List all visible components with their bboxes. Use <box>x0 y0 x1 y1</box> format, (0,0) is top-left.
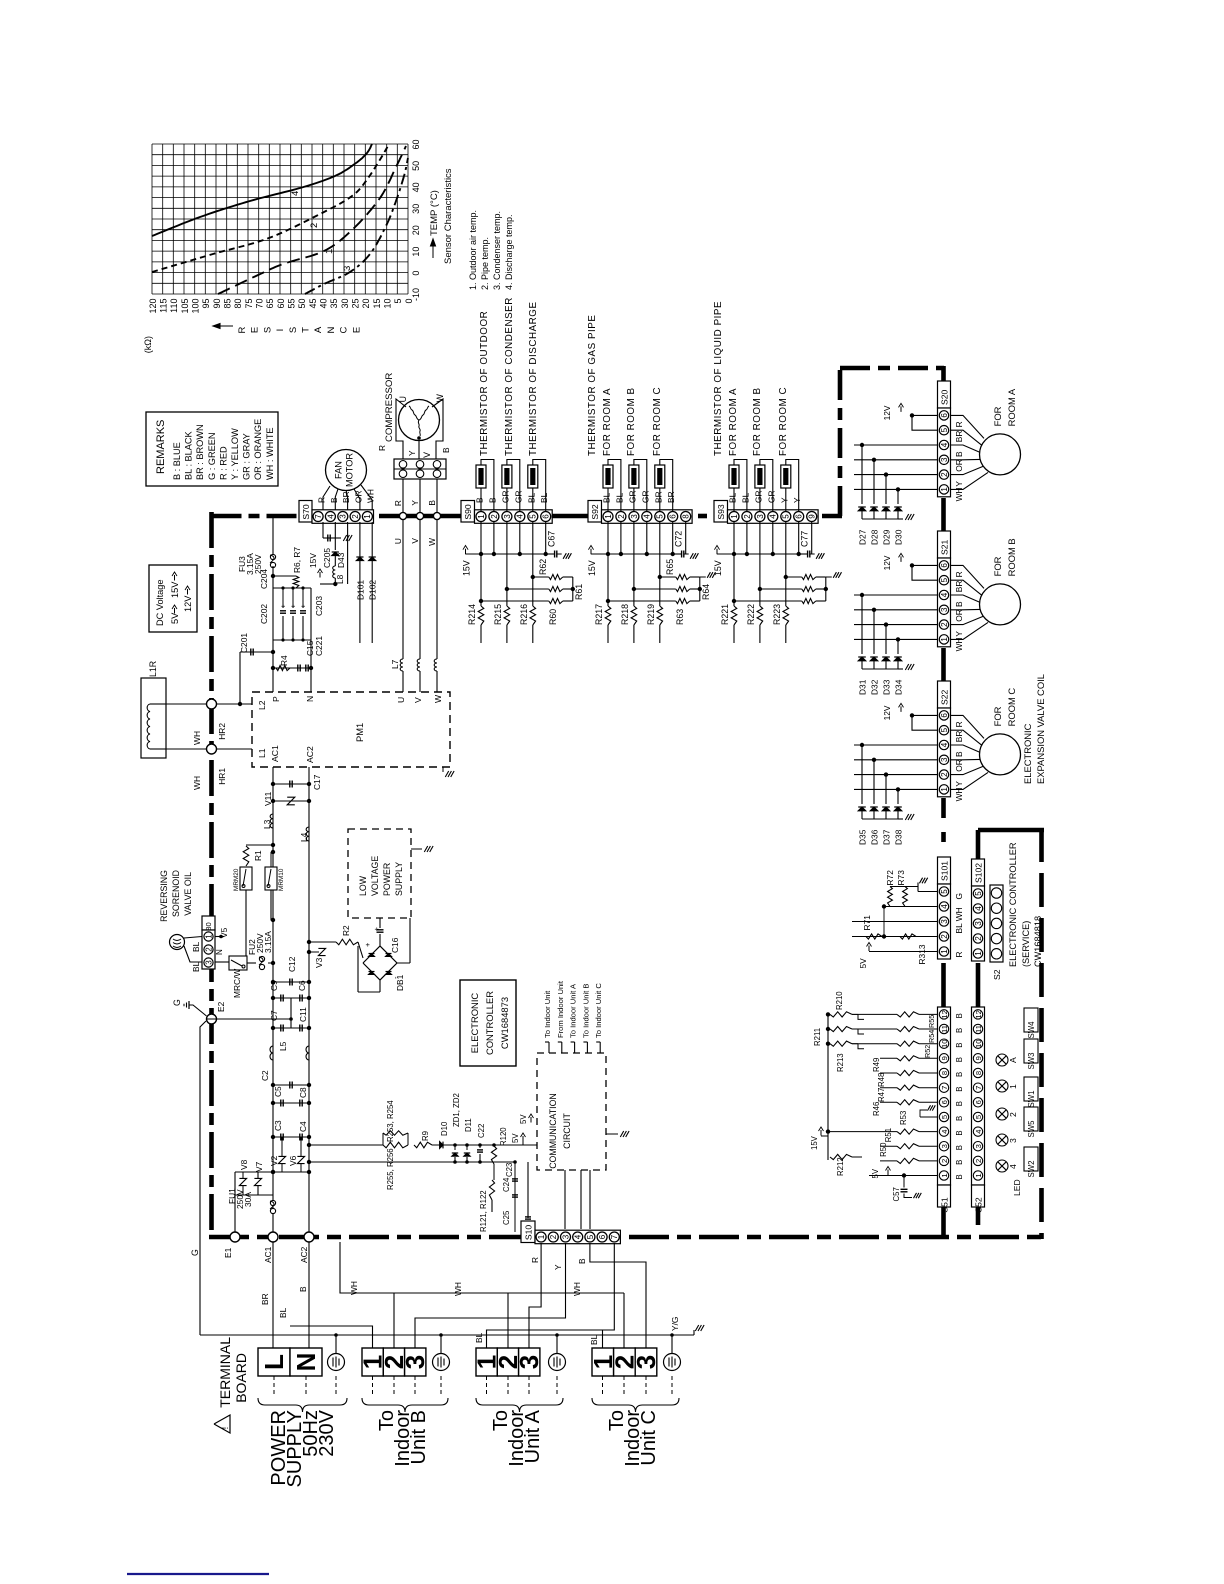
svg-text:B: B <box>427 500 437 506</box>
svg-text:D29: D29 <box>882 529 892 545</box>
svg-text:R47: R47 <box>877 1088 886 1102</box>
diode block D35-D38 <box>854 744 938 746</box>
svg-text:WH: WH <box>453 1282 463 1296</box>
svg-text:2: 2 <box>940 772 949 777</box>
svg-text:5V: 5V <box>519 1114 528 1124</box>
svg-text:B: B <box>955 1028 964 1033</box>
C12 capacitor <box>273 981 309 983</box>
svg-text:EXPANSION VALVE COIL: EXPANSION VALVE COIL <box>1035 674 1046 784</box>
svg-text:R: R <box>954 721 964 727</box>
svg-text:CIRCUIT: CIRCUIT <box>562 1113 572 1149</box>
svg-text:15V: 15V <box>810 1135 819 1150</box>
svg-text:Sensor Characteristics: Sensor Characteristics <box>443 168 454 264</box>
R51 R50 rows <box>880 1145 897 1147</box>
svg-text:6: 6 <box>598 1234 607 1239</box>
svg-text:2: 2 <box>351 514 360 519</box>
V3 varistor <box>309 951 319 953</box>
svg-text:5: 5 <box>974 891 983 896</box>
C2 capacitor <box>273 1084 309 1086</box>
heavy bus line top <box>212 514 301 519</box>
svg-text:8: 8 <box>974 1071 983 1075</box>
svg-text:BR : BROWN: BR : BROWN <box>195 424 205 480</box>
svg-text:ROOM C: ROOM C <box>1006 688 1017 727</box>
svg-text:15: 15 <box>372 299 382 309</box>
svg-text:15V: 15V <box>713 560 723 576</box>
svg-text:3: 3 <box>339 514 348 519</box>
svg-text:(SERVICE): (SERVICE) <box>1021 921 1031 967</box>
capacitor and ground at rail end <box>546 553 555 555</box>
svg-text:R1: R1 <box>253 850 263 861</box>
RESISTANCE word and arrow <box>213 325 233 327</box>
svg-text:W: W <box>427 538 437 546</box>
svg-text:MOTOR: MOTOR <box>345 453 355 487</box>
svg-text:VOLTAGE: VOLTAGE <box>370 856 380 896</box>
svg-text:VALVE OIL: VALVE OIL <box>183 872 193 916</box>
TEMP axis title with arrow <box>432 241 434 258</box>
svg-text:N: N <box>215 949 224 955</box>
terminal cells unit B <box>362 1348 383 1376</box>
svg-text:R218: R218 <box>620 604 630 625</box>
S51 left resistor array <box>827 1014 829 1160</box>
D11 diode <box>466 1145 468 1150</box>
earth rail Y/G <box>200 1334 694 1336</box>
svg-text:C5: C5 <box>273 1086 283 1097</box>
svg-text:FOR ROOM A: FOR ROOM A <box>728 388 739 456</box>
15V arrow at rail <box>820 1130 822 1136</box>
svg-text:3: 3 <box>630 514 639 519</box>
svg-text:REVERSING: REVERSING <box>159 870 169 922</box>
svg-text:!: ! <box>220 1427 231 1430</box>
remarks legend box <box>146 412 278 486</box>
terminal cells L N <box>258 1348 290 1376</box>
centre tap of C block <box>290 998 292 1028</box>
wires terminal block to bus <box>402 479 404 512</box>
fuse FU3 <box>272 516 274 556</box>
svg-text:B: B <box>955 1116 964 1121</box>
svg-text:To Indoor Unit C: To Indoor Unit C <box>594 983 603 1038</box>
heavy border top toward S20 <box>840 366 944 371</box>
compressor motor <box>399 400 440 441</box>
svg-text:R216: R216 <box>519 604 529 625</box>
svg-text:L3: L3 <box>262 819 272 829</box>
svg-text:BR: BR <box>653 491 663 503</box>
BL wire N area to unit B1 <box>290 1326 373 1348</box>
connector S70 <box>299 501 312 523</box>
svg-text:COMMUNICATION: COMMUNICATION <box>548 1093 558 1169</box>
svg-text:11: 11 <box>974 1025 983 1033</box>
svg-text:ELECTRONIC: ELECTRONIC <box>1022 723 1033 784</box>
connector S51 pin block <box>938 1007 951 1185</box>
svg-text:B: B <box>298 1286 308 1292</box>
C16 capacitor <box>379 934 381 946</box>
svg-text:C57: C57 <box>892 1187 901 1201</box>
svg-text:B: B <box>577 1258 587 1264</box>
svg-text:L: L <box>259 1354 289 1370</box>
svg-text:5V: 5V <box>871 1168 880 1178</box>
svg-text:S: S <box>288 327 299 333</box>
svg-text:R: R <box>954 421 964 427</box>
svg-text:1: 1 <box>324 249 335 254</box>
svg-text:WH: WH <box>954 637 964 651</box>
svg-text:R6, R7: R6, R7 <box>292 547 302 573</box>
terminal E2 on border <box>207 1014 217 1024</box>
svg-text:90: 90 <box>212 299 222 309</box>
svg-text:R217: R217 <box>594 604 604 625</box>
svg-text:E2: E2 <box>216 1001 226 1012</box>
svg-text:R222: R222 <box>746 604 756 625</box>
diode D102 <box>371 522 373 643</box>
HR2 terminal <box>166 703 252 705</box>
svg-text:R211: R211 <box>813 1028 822 1046</box>
svg-text:20: 20 <box>411 225 421 235</box>
R6 R7 resistors <box>273 575 296 577</box>
thermistor loop S92 pins 3-4 <box>634 460 647 512</box>
R212 row <box>830 1154 852 1159</box>
svg-text:WH: WH <box>349 1281 359 1295</box>
svg-text:D38: D38 <box>894 829 904 845</box>
svg-text:R51: R51 <box>884 1128 893 1142</box>
svg-text:3: 3 <box>940 457 949 462</box>
R4 C15 C221 row <box>273 667 311 669</box>
svg-text:4: 4 <box>326 514 335 519</box>
svg-text:4: 4 <box>974 906 983 911</box>
connector S101 <box>938 857 951 884</box>
svg-text:2: 2 <box>1008 1112 1018 1117</box>
svg-text:B: B <box>955 1057 964 1062</box>
svg-text:55: 55 <box>287 299 297 309</box>
svg-text:15V: 15V <box>462 560 472 576</box>
svg-text:BR: BR <box>341 491 351 503</box>
svg-text:R73: R73 <box>896 870 906 886</box>
L3 inductor <box>270 814 273 828</box>
svg-text:1: 1 <box>204 934 213 939</box>
svg-text:9: 9 <box>974 1056 983 1060</box>
svg-text:B: B <box>441 447 451 453</box>
LED indicators <box>996 1054 1008 1066</box>
svg-text:B: B <box>487 497 497 503</box>
svg-text:1: 1 <box>940 637 949 642</box>
svg-text:D37: D37 <box>882 829 892 845</box>
svg-text:C16: C16 <box>390 937 400 953</box>
V11 varistor <box>273 800 309 802</box>
svg-text:6: 6 <box>940 1100 949 1104</box>
svg-text:Y: Y <box>954 481 964 487</box>
svg-text:5: 5 <box>656 514 665 519</box>
svg-text:B: B <box>955 1086 964 1091</box>
svg-text:C9: C9 <box>269 980 279 991</box>
svg-text:HR2: HR2 <box>217 723 227 740</box>
svg-text:Y: Y <box>954 781 964 787</box>
svg-text:C202: C202 <box>259 604 269 624</box>
svg-text:L5: L5 <box>278 1041 288 1051</box>
svg-text:3: 3 <box>940 919 949 924</box>
svg-text:G : GREEN: G : GREEN <box>207 433 217 480</box>
svg-text:4: 4 <box>290 191 301 196</box>
svg-text:THERMISTOR OF CONDENSER: THERMISTOR OF CONDENSER <box>504 297 515 456</box>
connector S21 <box>938 531 951 558</box>
svg-text:SORENOID: SORENOID <box>171 870 181 917</box>
svg-text:U: U <box>393 538 403 544</box>
svg-text:6: 6 <box>940 563 949 568</box>
svg-text:D35: D35 <box>858 829 868 845</box>
capacitor and ground at rail end <box>799 553 808 555</box>
12V feed S22 <box>912 714 938 716</box>
svg-text:R64: R64 <box>701 584 711 600</box>
chassis ground G at E2 <box>189 1005 207 1016</box>
svg-text:BL: BL <box>474 1332 484 1343</box>
svg-text:5: 5 <box>940 577 949 582</box>
DB1 output wires <box>358 942 363 958</box>
svg-text:3: 3 <box>561 1234 570 1239</box>
svg-text:R120: R120 <box>499 1127 508 1146</box>
svg-text:C: C <box>339 326 350 333</box>
pulldown resistors <box>480 554 482 606</box>
braces under terminal groups <box>258 1398 347 1412</box>
svg-text:30: 30 <box>411 204 421 214</box>
svg-text:GR: GR <box>627 490 637 503</box>
svg-text:R72: R72 <box>885 870 895 886</box>
svg-text:To Indoor Unit: To Indoor Unit <box>543 990 552 1038</box>
HR1 terminal <box>166 748 252 750</box>
svg-text:E: E <box>351 327 362 333</box>
svg-text:BL: BL <box>191 961 201 972</box>
svg-text:C204: C204 <box>259 569 269 589</box>
svg-text:L1: L1 <box>257 748 267 758</box>
svg-text:S21: S21 <box>940 539 950 555</box>
svg-text:75: 75 <box>244 299 254 309</box>
svg-text:95: 95 <box>201 299 211 309</box>
svg-text:D31: D31 <box>858 679 868 695</box>
svg-text:3: 3 <box>940 757 949 762</box>
connector S52 pin block <box>972 1007 985 1185</box>
svg-text:4. Discharge temp.: 4. Discharge temp. <box>504 214 514 290</box>
svg-text:S70: S70 <box>301 504 311 520</box>
BL wire to unit C1 <box>565 1330 603 1348</box>
svg-text:12V: 12V <box>183 595 193 612</box>
svg-text:R210: R210 <box>835 991 844 1010</box>
svg-text:A: A <box>1008 1057 1018 1063</box>
svg-text:C25: C25 <box>502 1210 511 1225</box>
svg-text:FOR ROOM B: FOR ROOM B <box>752 387 763 456</box>
svg-text:2: 2 <box>743 514 752 519</box>
svg-text:V7: V7 <box>254 1161 264 1172</box>
R2 resistor <box>309 941 336 943</box>
C205 capacitor under S70 <box>322 522 324 538</box>
svg-text:12V: 12V <box>882 555 892 570</box>
diode block D27-D30 <box>854 444 938 446</box>
svg-text:G: G <box>954 893 964 900</box>
svg-text:BR: BR <box>954 581 964 593</box>
R wire S10-1 to unit A3 <box>529 1243 541 1348</box>
S70 pin3 wire down <box>347 522 349 584</box>
svg-text:S90: S90 <box>463 504 473 520</box>
curve 2 pipe temp (short dash) <box>152 144 389 272</box>
svg-text:1: 1 <box>940 949 949 954</box>
svg-text:L1R: L1R <box>148 661 158 677</box>
svg-text:V8: V8 <box>239 1159 249 1170</box>
capacitor and ground at rail end <box>673 553 682 555</box>
switch boxes SW <box>1024 1008 1038 1032</box>
svg-text:From Indoor Unit: From Indoor Unit <box>556 980 565 1038</box>
svg-text:100: 100 <box>191 299 201 314</box>
sensor characteristics graph grid <box>152 144 408 294</box>
thermistor loop S93 pins 1-2 <box>734 460 747 512</box>
svg-text:Y: Y <box>553 1264 563 1270</box>
svg-text:C8: C8 <box>298 1087 308 1098</box>
svg-text:C6: C6 <box>297 980 307 991</box>
svg-text:R2: R2 <box>341 925 351 936</box>
C22 capacitor <box>479 1145 481 1148</box>
connector S102 <box>972 859 985 886</box>
svg-text:FOR ROOM C: FOR ROOM C <box>778 387 789 456</box>
svg-text:30A: 30A <box>243 1192 253 1207</box>
svg-text:7: 7 <box>314 514 323 519</box>
svg-text:BL: BL <box>191 941 201 952</box>
PM1 ground stub <box>442 767 444 772</box>
svg-text:MRM20: MRM20 <box>233 868 240 891</box>
svg-text:CW1684873: CW1684873 <box>499 997 510 1049</box>
svg-text:DB1: DB1 <box>395 974 405 991</box>
C17 capacitor <box>273 783 309 785</box>
svg-text:R4: R4 <box>279 655 289 666</box>
chassis ground right end <box>693 1330 695 1335</box>
S101 left network R71 R72 R73 R313 5V <box>918 891 938 893</box>
G wire down to terminal board <box>200 1021 206 1335</box>
svg-text:D34: D34 <box>894 679 904 695</box>
svg-text:S: S <box>262 327 273 333</box>
connector S93 <box>714 501 728 523</box>
svg-text:5: 5 <box>529 514 538 519</box>
svg-text:5V: 5V <box>858 958 868 969</box>
svg-text:T: T <box>301 327 312 333</box>
svg-text:GR: GR <box>500 490 510 503</box>
svg-text:D43: D43 <box>336 552 346 568</box>
Y wire S10-3 to unit B3 <box>415 1243 566 1348</box>
svg-text:BL: BL <box>614 492 624 503</box>
svg-text:3: 3 <box>974 1144 983 1148</box>
fan motor <box>326 450 367 491</box>
svg-text:4: 4 <box>574 1234 583 1239</box>
svg-text:L2: L2 <box>257 700 267 710</box>
svg-text:Y: Y <box>779 497 789 503</box>
12V feed S20 <box>912 414 938 416</box>
svg-text:R63: R63 <box>675 609 685 625</box>
svg-text:R: R <box>317 497 327 503</box>
svg-text:D32: D32 <box>870 679 880 695</box>
heavy dash-dot border bottom <box>209 1235 1044 1240</box>
svg-text:6: 6 <box>542 514 551 519</box>
svg-text:2: 2 <box>617 514 626 519</box>
svg-text:4: 4 <box>940 442 949 447</box>
svg-text:N: N <box>291 1353 321 1372</box>
svg-text:C77: C77 <box>800 531 810 547</box>
svg-text:R215: R215 <box>493 604 503 625</box>
svg-text:N: N <box>326 326 337 333</box>
svg-text:25: 25 <box>351 299 361 309</box>
C201 branch to HR2 node <box>240 651 273 653</box>
svg-text:11: 11 <box>940 1025 949 1033</box>
svg-text:COMPRESSOR: COMPRESSOR <box>384 373 395 442</box>
svg-text:4: 4 <box>769 514 778 519</box>
svg-text:D27: D27 <box>858 529 868 545</box>
thick stub S102 to S52 <box>976 963 981 1007</box>
svg-text:SW4: SW4 <box>1027 1021 1036 1039</box>
svg-text:LOW: LOW <box>358 875 368 896</box>
svg-text:BR: BR <box>954 731 964 743</box>
svg-text:G: G <box>172 999 182 1006</box>
terminals AC1 AC2 on border <box>268 1232 278 1242</box>
svg-text:7: 7 <box>974 1086 983 1090</box>
svg-text:-10: -10 <box>411 288 421 301</box>
svg-text:6: 6 <box>795 514 804 519</box>
svg-text:3: 3 <box>631 1355 661 1369</box>
svg-text:30: 30 <box>340 299 350 309</box>
svg-text:U: U <box>396 697 406 703</box>
svg-text:+: + <box>299 603 308 608</box>
svg-text:GR : GRAY: GR : GRAY <box>242 433 252 480</box>
svg-text:W: W <box>433 694 443 703</box>
svg-text:60: 60 <box>411 139 421 149</box>
svg-text:1: 1 <box>1008 1084 1018 1089</box>
svg-text:BR: BR <box>954 431 964 443</box>
svg-text:1: 1 <box>363 514 372 519</box>
svg-text:D10: D10 <box>440 1121 449 1136</box>
svg-text:5: 5 <box>586 1234 595 1239</box>
svg-text:OR: OR <box>954 759 964 772</box>
svg-text:V: V <box>413 697 423 703</box>
svg-text:6: 6 <box>940 413 949 418</box>
svg-text:WH: WH <box>192 731 202 745</box>
svg-text:GR: GR <box>753 490 763 503</box>
svg-text:C22: C22 <box>477 1124 486 1138</box>
svg-text:B: B <box>954 601 964 607</box>
svg-text:CONTROLLER: CONTROLLER <box>484 991 495 1055</box>
svg-text:15V: 15V <box>308 553 318 568</box>
svg-text:5: 5 <box>940 727 949 732</box>
svg-text:D101: D101 <box>356 580 366 600</box>
svg-text:L4: L4 <box>299 832 309 842</box>
svg-text:I: I <box>275 329 286 332</box>
svg-text:To Indoor Unit A: To Indoor Unit A <box>569 983 578 1038</box>
thermistor loop S90 pins 1-2 <box>481 460 494 512</box>
svg-text:1. Outdoor air temp.: 1. Outdoor air temp. <box>468 210 478 290</box>
svg-text:3: 3 <box>974 921 983 926</box>
R120 resistor <box>491 1146 496 1164</box>
WH distribution wire <box>340 1242 624 1293</box>
svg-text:ELECTRONIC: ELECTRONIC <box>469 993 480 1054</box>
svg-text:Y: Y <box>410 500 420 506</box>
svg-text:5: 5 <box>940 1115 949 1119</box>
svg-text:10: 10 <box>411 247 421 257</box>
svg-text:V6: V6 <box>288 1155 298 1166</box>
svg-text:40: 40 <box>319 299 329 309</box>
svg-text:1: 1 <box>940 787 949 792</box>
R1 resistor <box>246 844 273 846</box>
controller dashed box extension <box>605 1053 607 1170</box>
svg-text:2: 2 <box>549 1234 558 1239</box>
fuse FU2 <box>247 962 256 964</box>
svg-text:POWER: POWER <box>382 863 392 896</box>
svg-text:9: 9 <box>940 1056 949 1060</box>
svg-text:R313: R313 <box>917 944 927 964</box>
svg-text:OR : ORANGE: OR : ORANGE <box>253 419 263 480</box>
svg-text:C221: C221 <box>314 636 324 656</box>
svg-text:B: B <box>955 1130 964 1135</box>
svg-text:D102: D102 <box>368 580 378 600</box>
svg-text:10: 10 <box>940 1039 949 1047</box>
svg-text:1: 1 <box>730 514 739 519</box>
varistors V2 V6 <box>281 1148 283 1156</box>
